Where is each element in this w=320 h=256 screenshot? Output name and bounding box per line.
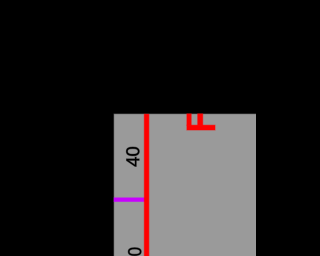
magenta data line [114,198,146,202]
red letter F arm 2 [198,114,203,125]
tick label 40 (rotated 90 CCW) [126,147,139,166]
black figure background [0,0,256,256]
red letter F arm 1 [187,114,191,125]
red letter F stem bar (rotated letter, clipped by black) [187,125,215,130]
tick label 0 (rotated 90 CCW) [128,248,141,256]
gray axes background [114,114,256,256]
red axis spine [144,114,149,256]
